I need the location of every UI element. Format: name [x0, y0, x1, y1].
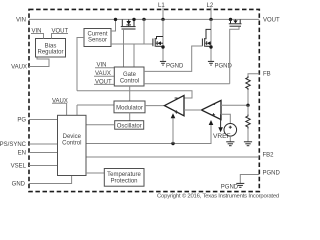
node dot rail at gate sense [142, 18, 145, 21]
voltage source VREF [224, 124, 237, 137]
transistor Q4 (output high-side FET) [229, 19, 242, 26]
wire modulator to error amp output [145, 105, 165, 107]
wire rail sense down [143, 19, 145, 44]
wire Q2 gate branch down to gate control [133, 44, 135, 67]
node dot rail at Q1 right leg [132, 18, 135, 21]
arrow VREF current [220, 114, 222, 127]
body diode D1 [126, 19, 131, 26]
svg-text:GND: GND [12, 182, 26, 188]
block Oscillator [115, 121, 144, 130]
svg-text:VOUT: VOUT [263, 17, 280, 23]
node dot comparator feed [171, 142, 174, 145]
block Modulator [114, 101, 145, 113]
node dot VIN/current sensor [114, 18, 117, 21]
wire oscillator to device control [86, 124, 115, 126]
svg-text:Protection: Protection [110, 178, 137, 184]
wire L2 [210, 8, 212, 20]
op-amp U1 (error amplifier) [165, 95, 185, 115]
svg-text:VAUX: VAUX [11, 65, 27, 71]
wire VIN rail [29, 18, 259, 20]
wire VREF to ground [229, 136, 231, 141]
svg-text:VREF: VREF [213, 133, 231, 140]
wire U1 plus feed [172, 118, 174, 144]
arrow into U1 [171, 113, 176, 118]
resistor R1 (FB top) [246, 76, 250, 90]
transistor Q2 (low-side FET on L1) [153, 37, 163, 47]
block Bias Regulator [36, 39, 66, 58]
block Gate Control [114, 67, 144, 86]
wire current sensor left to node column [77, 38, 84, 91]
svg-text:Modulator: Modulator [116, 105, 143, 111]
wire current sensor tap from VIN rail [111, 19, 116, 31]
ground PGND under Q3 [208, 61, 214, 65]
comparator U2 [201, 100, 221, 119]
wire FB2 [86, 156, 259, 158]
svg-text:PS/SYNC: PS/SYNC [0, 142, 27, 148]
wire R1 to node [247, 90, 249, 105]
body diode D4 [233, 19, 237, 23]
svg-text:Regulator: Regulator [37, 50, 63, 56]
svg-text:L2: L2 [207, 3, 214, 9]
wire current sensor right to FET2 gate [111, 43, 153, 45]
node dot Q3 source [209, 45, 212, 48]
wire VIN stub to bias [31, 34, 44, 39]
wire device control to comparator inputs [86, 125, 211, 144]
wire modulator to oscillator [129, 113, 131, 121]
wire GND [29, 176, 72, 184]
svg-text:VSEL: VSEL [11, 164, 27, 170]
ground PGND bottom [236, 183, 244, 187]
transistor Q3 (low-side FET on L2) [202, 29, 211, 46]
svg-text:FB: FB [263, 72, 271, 78]
wire R2 to ground [247, 129, 249, 142]
wire U2 minus to FB divider [221, 104, 248, 106]
wire column to modulator [77, 104, 114, 106]
wire VAUX pin [29, 57, 49, 67]
wire U2 plus to VREF [221, 114, 230, 123]
block Current Sensor [84, 29, 111, 47]
svg-text:FB2: FB2 [263, 153, 275, 159]
svg-text:PGND: PGND [166, 63, 184, 69]
arrow into U2 [209, 120, 214, 125]
wire current sense to error amp minus [77, 91, 192, 98]
ground PGND under Q2 [160, 61, 166, 65]
wire gate control to modulator [129, 86, 131, 101]
wire VOUT stub to bias [52, 34, 69, 39]
svg-text:Device: Device [63, 134, 82, 140]
svg-text:Gate: Gate [123, 72, 137, 78]
node dot Q2 source [161, 45, 164, 48]
svg-text:Control: Control [62, 140, 81, 146]
svg-text:Copyright © 2016, Texas Instru: Copyright © 2016, Texas Instruments Inco… [157, 192, 279, 199]
svg-text:Oscillator: Oscillator [117, 123, 142, 129]
wire PS/SYNC [29, 143, 58, 145]
body diode D2 [156, 41, 163, 45]
svg-text:PG: PG [17, 118, 26, 124]
svg-text:Control: Control [120, 79, 139, 85]
wire VSEL [29, 165, 58, 167]
svg-text:PGND: PGND [221, 185, 239, 191]
body diode D3 [205, 41, 211, 45]
wire VOUT stub [94, 83, 114, 85]
wire L2 node down [210, 19, 212, 61]
IC boundary dashed border [29, 9, 259, 191]
wire FB [248, 74, 259, 76]
node dot L2 [209, 18, 212, 21]
wire VAUX label drop [52, 103, 67, 115]
block Device Control [58, 115, 87, 175]
wire VAUX stub [94, 75, 114, 77]
svg-text:Current: Current [87, 31, 107, 37]
wire PG [29, 119, 58, 121]
node dot L1 [161, 18, 164, 21]
resistor R2 (FB bottom) [247, 105, 249, 114]
node dot FB divider [246, 104, 249, 107]
wire Q4 gate down [230, 27, 239, 84]
svg-text:VIN: VIN [16, 17, 26, 23]
svg-text:EN: EN [18, 151, 26, 157]
wire L1 [162, 8, 164, 20]
transistor Q1 (input high-side FET) [121, 19, 136, 29]
wire gate control to Q4 gate [144, 83, 230, 85]
svg-text:Sensor: Sensor [88, 38, 107, 44]
wire PGND pin [240, 175, 259, 184]
wire VIN stub [95, 67, 114, 69]
svg-text:Temperature: Temperature [107, 172, 141, 178]
block Temperature Protection [104, 169, 144, 187]
wire Q1 gate down to gate control [123, 29, 125, 67]
ground VREF [226, 142, 234, 146]
wire EN [29, 152, 58, 154]
node dot VOUT FET [229, 18, 232, 21]
wire device control to temp protection [86, 172, 104, 174]
wire gate control to Q3 gate [144, 46, 202, 71]
ground FB divider [244, 142, 252, 146]
wire L1 node down [162, 19, 164, 61]
svg-text:L1: L1 [158, 3, 165, 9]
wire U2 output to U1 [184, 109, 201, 111]
svg-text:PGND: PGND [263, 171, 281, 177]
